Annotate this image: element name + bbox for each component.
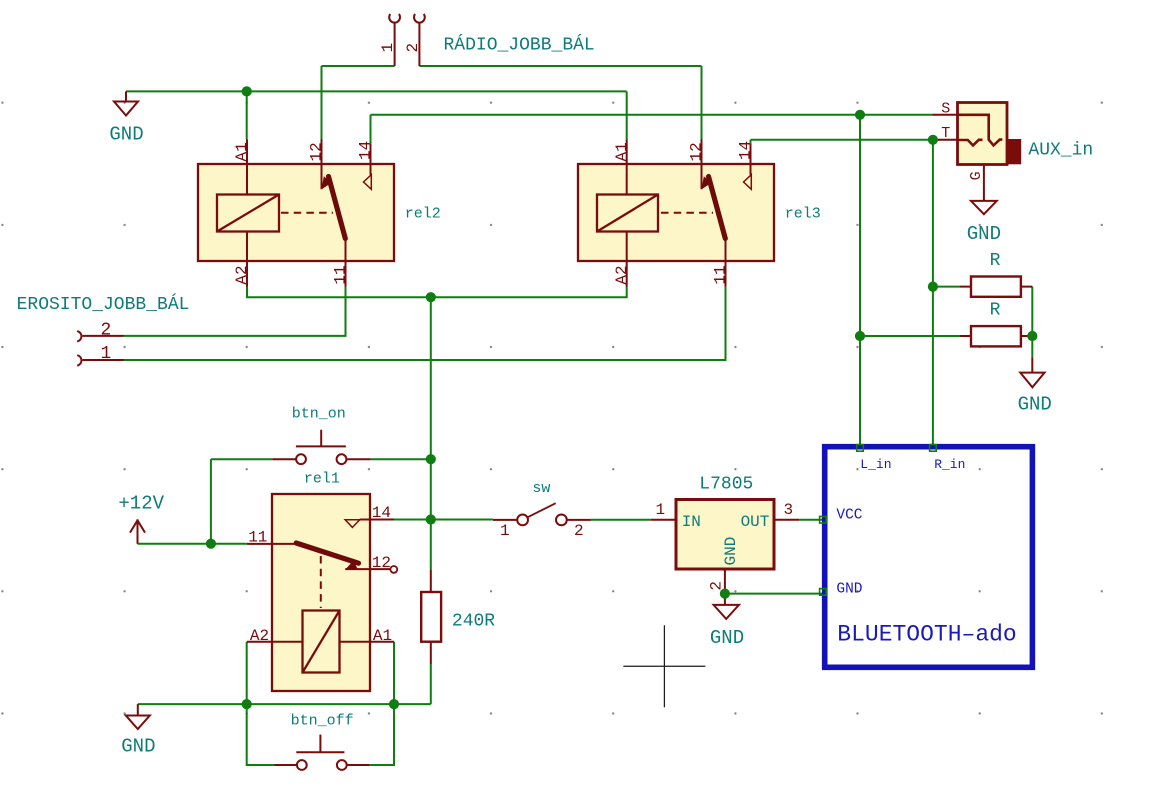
svg-text:12: 12 — [308, 142, 326, 161]
svg-text:IN: IN — [682, 513, 701, 531]
svg-text:240R: 240R — [452, 612, 495, 632]
svg-text:btn_off: btn_off — [291, 713, 354, 730]
svg-text:btn_on: btn_on — [292, 406, 346, 423]
svg-text:sw: sw — [532, 480, 550, 497]
svg-text:11: 11 — [332, 265, 350, 284]
svg-text:+12V: +12V — [118, 493, 164, 515]
svg-text:R_in: R_in — [934, 457, 965, 472]
svg-text:A2: A2 — [250, 627, 269, 645]
svg-text:1: 1 — [656, 501, 666, 519]
svg-text:1: 1 — [379, 43, 397, 53]
svg-text:GND: GND — [710, 627, 744, 649]
svg-text:14: 14 — [357, 141, 375, 160]
svg-text:3: 3 — [784, 501, 794, 519]
svg-text:14: 14 — [372, 504, 391, 522]
svg-text:A1: A1 — [373, 627, 392, 645]
svg-text:AUX_in: AUX_in — [1028, 141, 1093, 161]
svg-text:2: 2 — [404, 43, 422, 53]
svg-text:RÁDIO_JOBB_BÁL: RÁDIO_JOBB_BÁL — [444, 34, 595, 56]
svg-text:12: 12 — [688, 142, 706, 161]
svg-text:GND: GND — [722, 537, 740, 566]
svg-text:R: R — [990, 301, 1001, 321]
svg-text:A1: A1 — [613, 142, 631, 161]
svg-text:S: S — [941, 101, 950, 118]
svg-text:1: 1 — [101, 344, 112, 364]
svg-text:A2: A2 — [613, 265, 631, 284]
svg-text:2: 2 — [574, 522, 584, 540]
svg-text:rel1: rel1 — [304, 471, 340, 488]
svg-text:11: 11 — [712, 265, 730, 284]
svg-text:VCC: VCC — [836, 508, 862, 524]
svg-text:GND: GND — [1018, 394, 1052, 416]
svg-text:BLUETOOTH–ado: BLUETOOTH–ado — [837, 622, 1016, 648]
svg-text:L_in: L_in — [860, 457, 891, 472]
svg-text:R: R — [990, 251, 1001, 271]
svg-text:rel3: rel3 — [785, 206, 821, 223]
svg-text:14: 14 — [737, 141, 755, 160]
svg-text:GND: GND — [967, 223, 1001, 245]
svg-text:GND: GND — [109, 124, 143, 146]
svg-text:12: 12 — [372, 554, 391, 572]
svg-text:11: 11 — [248, 529, 267, 547]
svg-text:A2: A2 — [233, 265, 251, 284]
svg-text:G: G — [968, 171, 985, 180]
svg-text:GND: GND — [836, 582, 862, 598]
svg-text:EROSITO_JOBB_BÁL: EROSITO_JOBB_BÁL — [17, 293, 190, 315]
svg-text:A1: A1 — [233, 142, 251, 161]
svg-text:OUT: OUT — [741, 513, 770, 531]
svg-text:rel2: rel2 — [405, 206, 441, 223]
svg-text:2: 2 — [707, 581, 725, 591]
svg-text:1: 1 — [500, 522, 510, 540]
svg-text:L7805: L7805 — [699, 475, 753, 495]
svg-text:GND: GND — [121, 736, 155, 758]
svg-text:2: 2 — [101, 321, 112, 341]
svg-text:T: T — [941, 125, 950, 142]
